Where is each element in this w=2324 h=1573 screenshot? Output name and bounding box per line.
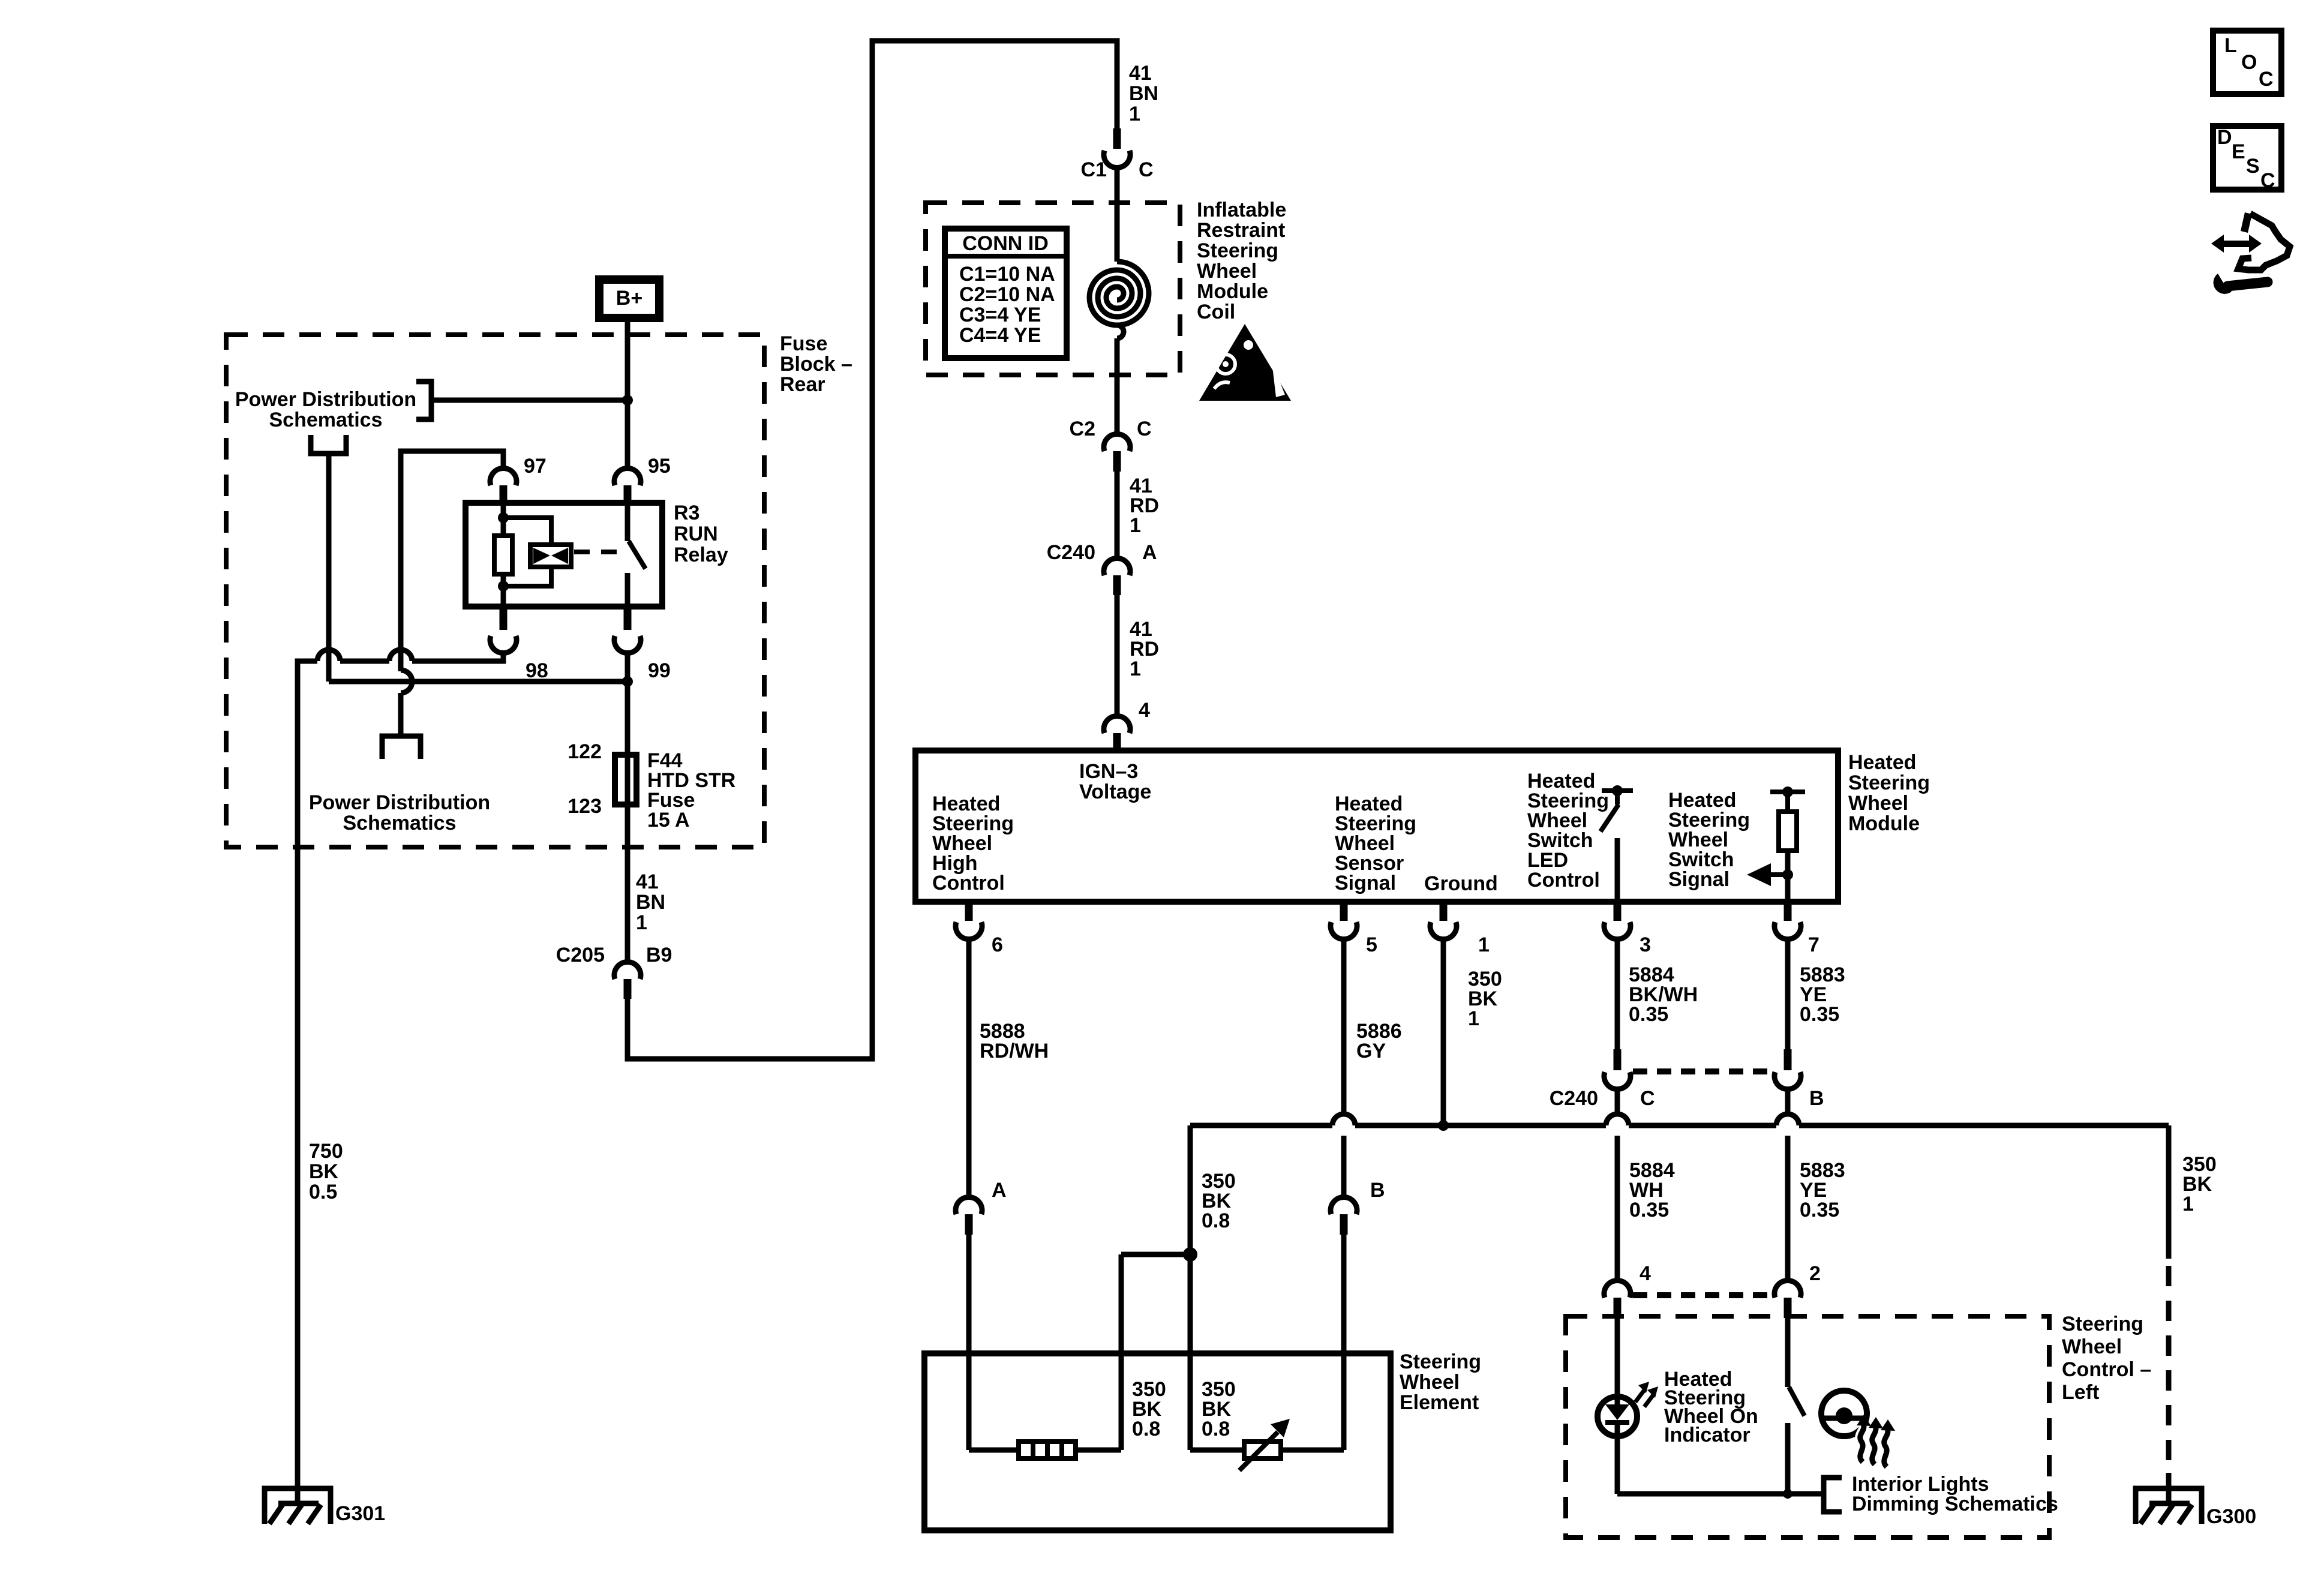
wire 5883 pin7 drop <box>1785 938 1791 1049</box>
LED heated steering wheel on indicator <box>1615 1318 1620 1404</box>
relay solenoid box with X <box>530 545 571 567</box>
wire C1 into coil <box>1115 166 1120 262</box>
wire C240 to module pin 4 <box>1115 595 1120 718</box>
LOC icon <box>2213 31 2281 94</box>
svg-text:Wheel: Wheel <box>2062 1335 2122 1358</box>
svg-text:Steering: Steering <box>2062 1313 2143 1335</box>
svg-text:41: 41 <box>636 870 659 893</box>
wire split to left element leg <box>1121 1254 1190 1450</box>
svg-text:750: 750 <box>309 1140 343 1163</box>
fork bracket below Power Distribution Schematics <box>311 435 346 454</box>
module internal pullup resistor <box>1770 792 1805 812</box>
svg-text:6: 6 <box>992 933 1003 956</box>
svg-text:Steering: Steering <box>1197 239 1278 262</box>
svg-text:Schematics: Schematics <box>269 409 383 431</box>
svg-text:C2: C2 <box>1070 418 1095 440</box>
svg-text:Power Distribution: Power Distribution <box>235 388 416 411</box>
steering wheel heat icon <box>1821 1391 1867 1436</box>
signal arrow <box>1768 872 1788 877</box>
svg-text:A: A <box>1142 541 1157 564</box>
svg-text:0.35: 0.35 <box>1800 1003 1839 1026</box>
svg-text:Fuse: Fuse <box>780 332 827 355</box>
svg-text:15 A: 15 A <box>647 809 690 831</box>
ground G300 <box>2136 1488 2202 1524</box>
svg-text:5: 5 <box>1366 933 1377 956</box>
coil exit hook <box>1117 325 1124 338</box>
svg-text:C1: C1 <box>1081 158 1107 181</box>
svg-text:Voltage: Voltage <box>1079 781 1151 803</box>
connector C240 cavity C <box>1614 1049 1622 1070</box>
svg-text:0.8: 0.8 <box>1132 1418 1160 1440</box>
svg-text:B: B <box>1370 1179 1385 1202</box>
wire hop H1 over wire B <box>389 650 412 661</box>
connector C240 cavity A <box>1104 558 1130 575</box>
svg-text:3: 3 <box>1640 933 1651 956</box>
svg-text:RD/WH: RD/WH <box>980 1040 1049 1062</box>
fork bracket to Interior Lights Dimming Schematics <box>1824 1478 1842 1512</box>
svg-text:BN: BN <box>636 891 665 914</box>
wire 350 BK to G300 <box>2166 1125 2172 1259</box>
connector module pin 1 <box>1440 902 1448 921</box>
svg-text:C2=10 NA: C2=10 NA <box>959 283 1055 306</box>
svg-text:L: L <box>2224 34 2237 57</box>
svg-text:Module: Module <box>1197 280 1268 303</box>
connector pin 98 <box>500 607 508 630</box>
svg-text:CONN ID: CONN ID <box>962 232 1049 255</box>
wire hop bus over wire 5 <box>1332 1114 1355 1125</box>
svg-text:41: 41 <box>1129 62 1152 85</box>
SIR warning triangle <box>1199 324 1291 401</box>
svg-text:Coil: Coil <box>1197 301 1235 323</box>
wire A from schematics fork down <box>326 454 332 682</box>
switch connector dashed line <box>1633 1292 1772 1298</box>
wire pin1 ground drop <box>1441 938 1446 1125</box>
node relay coil top <box>498 512 509 523</box>
svg-text:Element: Element <box>1400 1391 1479 1414</box>
svg-text:123: 123 <box>568 795 602 818</box>
svg-text:1: 1 <box>2182 1193 2194 1215</box>
svg-text:C: C <box>1640 1087 1655 1110</box>
steering wheel element box <box>924 1353 1391 1530</box>
wire 5886 pin5 to element B <box>1341 938 1347 1199</box>
wire coil to C2 <box>1115 338 1120 436</box>
wire 97 loop <box>401 451 503 671</box>
wire relay 99 to fuse <box>625 652 630 752</box>
svg-text:C: C <box>2260 169 2275 192</box>
svg-text:B+: B+ <box>616 287 642 310</box>
wire bus left drop <box>1188 1125 1193 1254</box>
svg-text:Steering: Steering <box>1400 1350 1481 1373</box>
svg-text:Left: Left <box>2062 1381 2099 1404</box>
svg-text:99: 99 <box>648 659 671 682</box>
node B+ junction <box>622 395 633 406</box>
connector pin 95 <box>614 468 641 485</box>
connector module pin 4 <box>1104 716 1130 733</box>
svg-text:R3: R3 <box>674 502 699 524</box>
svg-text:0.35: 0.35 <box>1629 1003 1668 1026</box>
wire C240 C to switch connector 4 <box>1615 1088 1620 1282</box>
fuse F44 body <box>615 755 636 804</box>
wire LED and switch to dimming fork <box>1617 1491 1824 1497</box>
connector module pin 5 <box>1340 902 1348 921</box>
navigation arrow icon <box>2221 241 2251 247</box>
ground G301 <box>265 1488 331 1524</box>
clockspring coil spiral <box>1089 262 1149 325</box>
wire hop bus over wire 3 <box>1606 1114 1629 1125</box>
connector module pin 7 <box>1784 902 1792 921</box>
svg-text:0.8: 0.8 <box>1202 1418 1230 1440</box>
wire 5888 pin6 to element <box>966 938 972 1199</box>
svg-text:1: 1 <box>1130 514 1141 537</box>
svg-text:Block –: Block – <box>780 353 852 376</box>
svg-text:Wheel: Wheel <box>1400 1371 1460 1394</box>
node bus to pin1 <box>1438 1120 1449 1131</box>
svg-text:IGN–3: IGN–3 <box>1079 760 1138 783</box>
svg-text:Indicator: Indicator <box>1664 1424 1750 1446</box>
wire hop H1 over wire A <box>317 650 340 661</box>
svg-text:B: B <box>1809 1087 1824 1110</box>
svg-text:1: 1 <box>1468 1007 1479 1030</box>
svg-text:Restraint: Restraint <box>1197 219 1285 242</box>
steering wheel control left dashed boundary <box>1566 1316 2049 1538</box>
node switch leg join <box>1783 1489 1792 1499</box>
svg-text:122: 122 <box>568 740 602 763</box>
connector switch pin 4 <box>1604 1280 1631 1298</box>
relay switch contact <box>625 504 630 541</box>
connector C240 cavity B <box>1784 1049 1792 1070</box>
wire hop of wire B over H2 <box>401 670 412 693</box>
svg-text:Inflatable: Inflatable <box>1197 199 1286 221</box>
svg-text:C4=4 YE: C4=4 YE <box>959 324 1041 347</box>
fork bracket to Power Distribution Schematics <box>416 382 431 419</box>
svg-text:G301: G301 <box>335 1502 385 1525</box>
wire split to right element leg <box>1188 1254 1193 1450</box>
connector C205 pin B9 <box>614 962 641 979</box>
svg-text:E: E <box>2232 140 2245 163</box>
svg-text:BN: BN <box>1129 82 1158 105</box>
svg-text:1: 1 <box>1130 658 1141 680</box>
svg-text:Signal: Signal <box>1335 872 1396 894</box>
svg-text:0.8: 0.8 <box>1202 1209 1230 1232</box>
svg-text:95: 95 <box>648 455 671 478</box>
svg-text:O: O <box>2241 51 2257 74</box>
resistor in relay <box>494 536 512 574</box>
svg-text:1: 1 <box>1129 103 1140 125</box>
svg-text:C205: C205 <box>556 944 605 966</box>
fuse block rear dashed boundary <box>226 335 764 847</box>
svg-text:D: D <box>2217 126 2232 149</box>
connector C1 cavity C <box>1113 128 1121 149</box>
relay switch blade <box>629 541 645 569</box>
svg-text:C: C <box>1137 418 1152 440</box>
svg-text:Wheel: Wheel <box>1848 792 1908 815</box>
fork bracket to Power Distribution Schematics (lower) <box>382 736 421 759</box>
svg-text:0.5: 0.5 <box>309 1181 337 1203</box>
svg-text:S: S <box>2246 155 2260 178</box>
wire 5884 pin3 drop <box>1615 938 1620 1049</box>
svg-text:C240: C240 <box>1550 1087 1598 1110</box>
sensor thermistor (variable resistor) <box>1190 1448 1344 1453</box>
heated steering wheel switch <box>1785 1318 1791 1387</box>
relay actuator dashed link <box>574 550 619 554</box>
svg-text:Steering: Steering <box>1848 772 1930 794</box>
connector pin 99 <box>624 607 632 630</box>
wire C2 to C240 <box>1115 472 1120 560</box>
wire hop bus over wire 7 <box>1776 1114 1799 1125</box>
svg-text:C: C <box>2259 68 2274 91</box>
wire to relay solenoid <box>503 518 551 586</box>
svg-text:2: 2 <box>1809 1262 1821 1285</box>
svg-text:4: 4 <box>1640 1262 1651 1285</box>
svg-text:Module: Module <box>1848 812 1920 835</box>
LED light arrows <box>1635 1390 1653 1407</box>
svg-text:97: 97 <box>524 455 547 478</box>
svg-text:C: C <box>1139 158 1154 181</box>
DESC icon <box>2213 126 2281 190</box>
wire fuse to C205 <box>625 807 630 963</box>
svg-text:C240: C240 <box>1047 541 1095 564</box>
svg-text:Ground: Ground <box>1424 872 1498 895</box>
ground bus wire <box>1190 1123 2169 1128</box>
node element ground split <box>1183 1247 1197 1262</box>
wire H2 fork to fuse node <box>329 679 627 685</box>
svg-text:Dimming Schematics: Dimming Schematics <box>1852 1493 2058 1515</box>
svg-text:Control: Control <box>932 872 1005 894</box>
wire C205 to coil feed <box>627 41 1117 1059</box>
CONN ID table <box>945 229 1067 358</box>
relay R3 box <box>466 503 662 607</box>
module internal LED driver switch <box>1602 791 1633 804</box>
svg-text:1: 1 <box>636 911 647 934</box>
svg-text:C3=4 YE: C3=4 YE <box>959 304 1041 326</box>
svg-text:Relay: Relay <box>674 544 728 566</box>
svg-text:7: 7 <box>1808 933 1819 956</box>
svg-text:RUN: RUN <box>674 523 718 545</box>
connector module pin 6 <box>965 902 973 921</box>
heater element resistor <box>969 1448 1121 1453</box>
wrench icon <box>2214 274 2232 294</box>
svg-text:Wheel: Wheel <box>1197 260 1257 283</box>
svg-text:A: A <box>992 1179 1007 1202</box>
svg-text:Power Distribution: Power Distribution <box>309 791 490 814</box>
wire B to lower fork <box>398 693 404 736</box>
svg-text:4: 4 <box>1139 699 1150 722</box>
wire to power distribution fork <box>433 398 627 403</box>
node relay coil bottom <box>498 581 509 592</box>
connector element terminal A <box>956 1197 982 1214</box>
svg-text:Heated: Heated <box>1848 751 1916 774</box>
wire B+ feed down <box>625 320 630 470</box>
C240 dashed connector line <box>1633 1068 1772 1074</box>
svg-text:Schematics: Schematics <box>343 812 457 834</box>
svg-text:GY: GY <box>1356 1040 1386 1062</box>
relay coil resistor branch wire <box>501 504 506 607</box>
svg-text:C1=10 NA: C1=10 NA <box>959 263 1055 286</box>
svg-text:BK: BK <box>309 1160 339 1183</box>
svg-text:G300: G300 <box>2206 1505 2256 1528</box>
svg-text:B9: B9 <box>646 944 672 966</box>
connector switch pin 2 <box>1774 1280 1801 1298</box>
connector pin 97 <box>490 468 517 485</box>
inflatable restraint coil dashed boundary <box>926 203 1180 375</box>
svg-text:Control –: Control – <box>2062 1358 2151 1381</box>
svg-text:Control: Control <box>1527 869 1600 891</box>
wire C240 B to switch connector 2 <box>1785 1088 1791 1282</box>
node signal tap <box>1782 869 1793 880</box>
node 99 to schematics fork <box>622 676 633 687</box>
svg-text:Signal: Signal <box>1668 868 1730 891</box>
svg-text:0.35: 0.35 <box>1629 1199 1669 1221</box>
connector C2 cavity C <box>1104 434 1130 451</box>
heated steering wheel module U1 box <box>915 751 1838 902</box>
connector module pin 3 <box>1614 902 1622 921</box>
svg-text:98: 98 <box>526 659 548 682</box>
svg-text:0.35: 0.35 <box>1800 1199 1839 1221</box>
power symbol B+ <box>599 280 659 318</box>
connector element terminal B <box>1331 1197 1357 1214</box>
wire H1 from relay pin 98 to ground run with hops <box>298 652 503 1504</box>
svg-text:1: 1 <box>1478 933 1490 956</box>
svg-text:Rear: Rear <box>780 373 825 396</box>
